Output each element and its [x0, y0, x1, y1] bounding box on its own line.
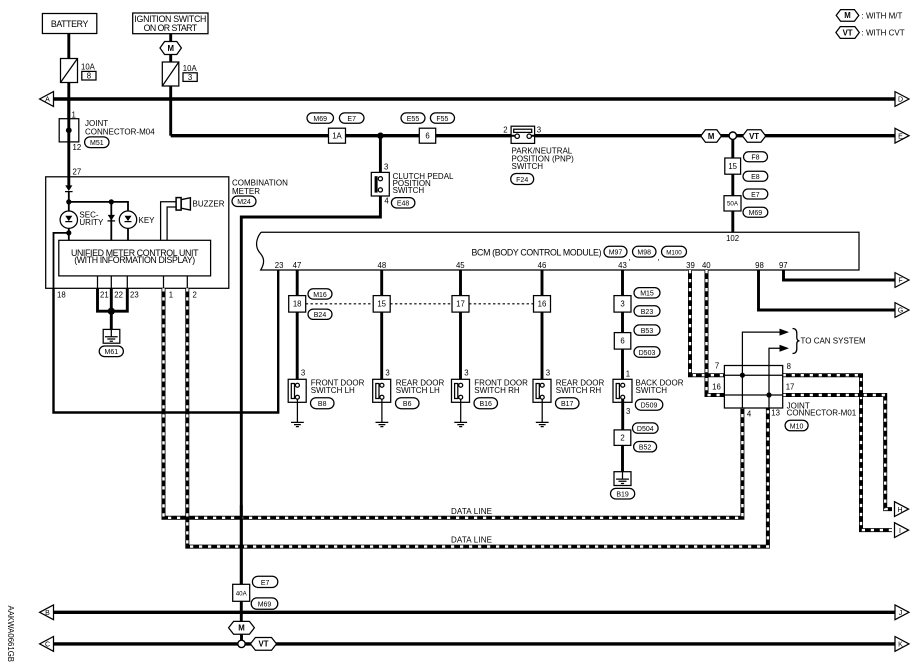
svg-text:3: 3	[546, 369, 550, 378]
ground oval B19	[611, 488, 635, 499]
svg-text:SWITCH RH: SWITCH RH	[556, 386, 602, 395]
connector oval F55	[430, 113, 454, 123]
wire back door pin3 down	[621, 399, 624, 430]
key LED	[119, 211, 136, 240]
svg-text:A: A	[45, 97, 50, 104]
label PNP switch	[512, 146, 575, 171]
connector box 6b	[614, 333, 631, 350]
svg-text:E7: E7	[751, 192, 760, 199]
wire stub pin21	[97, 276, 99, 288]
wire pins 21-23 to ground	[98, 288, 128, 329]
connector box 18	[289, 296, 306, 313]
svg-text:1: 1	[72, 110, 76, 119]
svg-text:E7: E7	[347, 116, 356, 123]
svg-text:F8: F8	[751, 155, 759, 162]
svg-text:46: 46	[538, 261, 547, 270]
rear door switch RH	[533, 379, 551, 426]
svg-text:BATTERY: BATTERY	[51, 19, 89, 29]
connector oval B6	[396, 398, 420, 409]
svg-text:E55: E55	[407, 116, 420, 123]
svg-text:F: F	[898, 278, 902, 285]
wire bcm47 to box18	[296, 270, 299, 296]
arrow D	[895, 92, 909, 107]
svg-text:SWITCH: SWITCH	[512, 162, 544, 171]
wire to security LED	[68, 202, 70, 211]
wire M hexagon to bus C	[240, 634, 243, 644]
wire node to pin18	[54, 233, 69, 288]
svg-text:B17: B17	[561, 401, 574, 408]
checkered data line 1 meter pin1 to JC-M01 pin4	[164, 288, 743, 518]
svg-text:2: 2	[620, 434, 624, 443]
svg-text:23: 23	[275, 261, 284, 270]
svg-text:3: 3	[301, 369, 305, 378]
svg-text:M: M	[238, 624, 245, 633]
wire bus C	[54, 642, 896, 645]
wire box18 to front door switch LH	[296, 312, 299, 379]
wire box16 to rear door switch RH	[541, 312, 544, 379]
label front door switch RH	[474, 379, 528, 395]
wire CAN branch 2	[769, 348, 780, 395]
svg-text:CONNECTOR-M01: CONNECTOR-M01	[787, 409, 857, 418]
svg-text:3: 3	[537, 126, 541, 135]
svg-text:B23: B23	[641, 309, 654, 316]
park/neutral position switch F24	[511, 126, 534, 143]
wire box3 to box6	[621, 312, 624, 333]
connector box 3	[614, 296, 631, 313]
wire overlay clutch feed over data lines	[240, 505, 243, 584]
svg-text:B16: B16	[479, 401, 492, 408]
wire stub pin1	[163, 276, 165, 288]
connector oval E8	[743, 171, 768, 181]
junction dot clutch branch	[377, 133, 383, 139]
connector oval B24	[308, 309, 332, 319]
svg-text:M: M	[844, 11, 851, 20]
wire JC-M01 pin4 drop	[741, 375, 743, 408]
connector oval M16	[308, 289, 332, 299]
svg-text:4: 4	[384, 196, 389, 205]
wire battery to fuse	[67, 34, 70, 59]
combination meter box	[46, 177, 229, 288]
fuse 10A 8	[61, 59, 97, 83]
wire bcm46 to box16	[541, 270, 544, 296]
svg-text:12: 12	[73, 143, 82, 152]
front door switch LH	[288, 379, 306, 426]
wire diode to node	[68, 192, 70, 202]
svg-text:50A: 50A	[727, 201, 739, 208]
wire bcm45 to box17	[459, 270, 462, 296]
svg-text:3: 3	[188, 73, 192, 82]
connector box 15	[725, 158, 741, 174]
checkered wire JC-M01 pin17 to arrow H	[783, 395, 892, 509]
diode D1	[65, 185, 73, 191]
svg-text:F24: F24	[516, 177, 528, 184]
svg-text:(WITH INFORMATION DISPLAY): (WITH INFORMATION DISPLAY)	[74, 255, 195, 265]
svg-text:G: G	[898, 308, 903, 315]
label JOINT CONNECTOR-M04	[85, 119, 155, 137]
svg-text:VT: VT	[259, 640, 269, 649]
clutch pedal position switch	[371, 172, 389, 196]
svg-text:VT: VT	[843, 28, 853, 37]
connector oval F8	[744, 152, 768, 162]
junction dot JC-M01 row1	[740, 373, 745, 378]
wire stub pin2	[186, 276, 188, 288]
wire JC-M01 pin13 drop	[768, 395, 770, 408]
connector oval D509	[635, 399, 663, 410]
svg-text:98: 98	[755, 261, 764, 270]
svg-text:7: 7	[715, 362, 719, 371]
junction dot JC-M01 row2	[766, 392, 771, 397]
svg-text:M: M	[167, 44, 174, 53]
svg-text:6: 6	[425, 132, 429, 141]
svg-text:SWITCH: SWITCH	[636, 386, 668, 395]
svg-text:M16: M16	[313, 292, 327, 299]
ground box B19	[614, 472, 631, 486]
svg-text:E: E	[898, 133, 903, 140]
arrow B	[40, 605, 54, 620]
svg-text:40A: 40A	[236, 590, 248, 597]
svg-text:B24: B24	[314, 312, 327, 319]
dashed link 18-15	[306, 303, 374, 305]
svg-text:M61: M61	[104, 349, 118, 356]
dashed link 17-16	[469, 303, 534, 305]
svg-text:21: 21	[100, 291, 109, 300]
connector oval M100	[662, 246, 687, 257]
svg-text:VT: VT	[749, 132, 759, 141]
open circle junction bus C	[238, 640, 245, 647]
connector oval E7b	[743, 189, 768, 199]
dashed link 15-17	[390, 303, 452, 305]
svg-text:,: ,	[629, 253, 631, 262]
svg-text:8: 8	[787, 362, 791, 371]
arrow A	[40, 92, 54, 107]
connector oval B53	[634, 325, 660, 335]
legend hexagon VT	[836, 27, 859, 39]
wire box15 to rear door switch LH	[380, 312, 383, 379]
svg-text:18: 18	[57, 291, 66, 300]
svg-text:17: 17	[786, 383, 795, 392]
arrow K	[895, 637, 909, 652]
wire bcm43 to box3	[621, 270, 624, 296]
svg-text:D509: D509	[641, 403, 658, 410]
ground M61 box	[103, 329, 120, 343]
svg-text:M69: M69	[313, 116, 327, 123]
connector oval B17	[556, 398, 580, 409]
wire JC-M01 row1	[724, 374, 782, 376]
svg-text:E8: E8	[751, 174, 760, 181]
hexagon M bottom	[229, 621, 255, 634]
unified meter control unit U1	[59, 240, 211, 276]
security LED	[60, 211, 77, 228]
connector oval D504	[633, 423, 659, 433]
connector oval M10	[785, 420, 808, 431]
connector oval B16	[474, 398, 498, 409]
connector oval E7	[339, 113, 364, 123]
svg-text:39: 39	[686, 261, 695, 270]
svg-text:D504: D504	[637, 426, 654, 433]
node junction	[66, 199, 71, 204]
svg-text:: WITH M/T: : WITH M/T	[862, 11, 903, 20]
checkered data line 2 meter pin2 to JC-M01 pin13	[187, 288, 768, 546]
hexagon M (with M/T)	[160, 42, 181, 55]
connector box 17	[452, 296, 469, 313]
arrow I	[895, 523, 909, 538]
svg-text:M24: M24	[237, 199, 251, 206]
svg-text:8: 8	[87, 71, 91, 80]
wire clutch to 40A feed	[241, 196, 380, 584]
ignition switch	[133, 13, 208, 34]
connector box 16	[534, 296, 551, 313]
svg-text:B8: B8	[318, 401, 327, 408]
svg-text:E48: E48	[397, 201, 410, 208]
svg-text:97: 97	[779, 261, 788, 270]
wire stub pin22	[110, 276, 112, 288]
svg-text:K: K	[898, 642, 903, 649]
hexagon VT on line E	[743, 130, 766, 143]
wire line E from ignition	[169, 86, 172, 136]
svg-text:,: ,	[658, 253, 660, 262]
wire fuse to joint connector M04	[67, 83, 70, 119]
svg-text:M98: M98	[637, 250, 651, 257]
svg-text:3: 3	[620, 300, 624, 309]
svg-text:SWITCH LH: SWITCH LH	[396, 386, 440, 395]
svg-text:C: C	[45, 642, 50, 649]
label COMBINATION METER	[232, 179, 288, 197]
svg-text:DATA LINE: DATA LINE	[451, 536, 492, 545]
label JOINT CONNECTOR-M01	[787, 401, 857, 417]
wire through joint connector M04	[67, 99, 70, 177]
svg-text:H: H	[897, 507, 902, 514]
connector oval E48	[391, 198, 415, 208]
wire CAN branch 1	[742, 332, 779, 375]
joint connector M01 box	[724, 366, 782, 409]
wire JC-M01 row2	[724, 394, 782, 396]
connector box 2	[614, 430, 631, 446]
svg-text:1: 1	[626, 369, 630, 378]
label SECURITY	[79, 211, 104, 227]
connector oval M69b	[743, 207, 768, 217]
arrow J	[895, 605, 909, 620]
svg-text:16: 16	[538, 300, 547, 309]
fuse box 40A	[233, 584, 250, 601]
wire bus A-D	[54, 97, 896, 100]
svg-text:45: 45	[456, 261, 465, 270]
joint connector M04	[59, 119, 79, 142]
svg-text:2: 2	[193, 291, 197, 300]
label front door switch LH	[311, 379, 365, 395]
wire box2 to ground B19	[621, 445, 624, 471]
svg-text:15: 15	[377, 300, 386, 309]
svg-text:23: 23	[130, 291, 139, 300]
svg-text:DATA LINE: DATA LINE	[451, 507, 492, 516]
svg-text:: WITH CVT: : WITH CVT	[862, 28, 905, 37]
svg-text:43: 43	[618, 261, 627, 270]
connector oval B8	[311, 398, 335, 409]
svg-text:18: 18	[293, 300, 302, 309]
svg-text:TO CAN SYSTEM: TO CAN SYSTEM	[801, 337, 867, 346]
svg-text:22: 22	[114, 291, 123, 300]
wire bus B	[54, 611, 896, 614]
connector oval F24	[511, 174, 534, 185]
svg-text:3: 3	[384, 163, 388, 172]
legend hexagon M	[836, 10, 859, 22]
connector oval E7c	[252, 576, 277, 587]
node junction mid	[109, 199, 114, 204]
svg-text:3: 3	[385, 369, 389, 378]
svg-text:B52: B52	[639, 445, 652, 452]
svg-text:B53: B53	[641, 328, 654, 335]
arrow G	[895, 303, 909, 318]
svg-text:10A: 10A	[81, 63, 96, 72]
svg-text:4: 4	[747, 409, 752, 418]
wire pin98 to arrow G	[759, 270, 896, 310]
wire stub pin23	[126, 276, 128, 288]
connector oval M15	[634, 288, 660, 298]
svg-text:M10: M10	[790, 423, 804, 430]
svg-text:48: 48	[378, 261, 387, 270]
arrow H	[895, 502, 909, 517]
connector oval B23	[634, 306, 660, 316]
svg-text:E7: E7	[261, 580, 270, 587]
svg-text:40: 40	[702, 261, 711, 270]
svg-text:47: 47	[293, 261, 302, 270]
svg-text:F55: F55	[436, 116, 448, 123]
checkered wire JC-M01 pin8 to arrow I	[783, 375, 892, 530]
connector oval E55	[401, 113, 425, 123]
svg-text:KEY: KEY	[139, 216, 156, 225]
svg-text:D: D	[898, 97, 903, 104]
arrow F	[895, 273, 909, 288]
wire pin97 to arrow F	[784, 270, 896, 280]
diode D2 mid branch	[108, 202, 116, 240]
arrow E	[895, 128, 909, 143]
arrow C	[40, 637, 54, 652]
wire buzzer 2	[167, 207, 176, 240]
wire 40A to bus B and M hexagon	[240, 601, 243, 621]
svg-text:102: 102	[726, 234, 739, 243]
wire pin27 into meter	[67, 177, 70, 186]
svg-text:M97: M97	[609, 250, 623, 257]
svg-text:M: M	[708, 132, 715, 141]
connector oval B52	[634, 442, 657, 452]
junction dot ground	[108, 308, 115, 315]
wire 102 feed down	[731, 137, 734, 232]
connector box 6	[419, 128, 435, 143]
checkered wire bcm39 to JC-M01 pin7	[690, 270, 724, 375]
svg-text:BCM (BODY CONTROL MODULE): BCM (BODY CONTROL MODULE)	[472, 247, 602, 257]
buzzer	[176, 198, 190, 211]
svg-text:B19: B19	[616, 492, 629, 499]
wire ignition to hexagon	[169, 34, 172, 42]
svg-text:M51: M51	[90, 140, 104, 147]
svg-text:M15: M15	[640, 291, 654, 298]
fuse box 50A	[724, 196, 741, 211]
connector oval M98	[633, 246, 660, 262]
svg-text:6: 6	[620, 337, 624, 346]
checkered wire bcm40 to JC-M01 pin16	[707, 270, 725, 395]
svg-text:3: 3	[464, 369, 468, 378]
node junction sec	[66, 230, 71, 235]
wire box17 to front door switch RH	[459, 312, 462, 379]
svg-text:ON OR START: ON OR START	[144, 23, 198, 33]
svg-text:URITY: URITY	[79, 218, 104, 227]
svg-text:SWITCH LH: SWITCH LH	[311, 386, 355, 395]
fuse 10A 3	[162, 62, 197, 86]
ground oval M61	[99, 346, 123, 357]
wire pin18 to BCM pin23	[54, 270, 279, 413]
connector oval D503	[634, 347, 660, 357]
wire box6 to back door switch	[621, 349, 624, 379]
label CLUTCH PEDAL POSITION SWITCH	[393, 172, 454, 195]
svg-text:SWITCH: SWITCH	[393, 186, 425, 195]
back door switch	[613, 379, 632, 402]
connector oval M51	[85, 137, 109, 148]
svg-text:CONNECTOR-M04: CONNECTOR-M04	[85, 128, 155, 137]
wire to clutch switch	[379, 136, 382, 173]
svg-text:M69: M69	[258, 602, 272, 609]
svg-text:D503: D503	[639, 350, 656, 357]
svg-text:B6: B6	[403, 401, 412, 408]
connector oval M97	[604, 246, 631, 262]
label rear door switch LH	[396, 379, 445, 395]
brace to CAN	[793, 329, 800, 354]
hexagon VT bottom	[250, 638, 276, 651]
wire security LED cathode	[68, 228, 70, 240]
connector box 15	[373, 296, 390, 313]
svg-text:17: 17	[456, 300, 465, 309]
open circle junction line E	[729, 132, 736, 139]
svg-text:13: 13	[771, 408, 780, 417]
svg-text:J: J	[899, 610, 903, 617]
wire bcm48 to box15	[380, 270, 383, 296]
svg-text:27: 27	[73, 167, 82, 176]
BCM body control module box	[257, 232, 859, 270]
connector oval M69	[307, 113, 334, 123]
wire hexagon to fuse	[169, 55, 172, 63]
svg-text:16: 16	[712, 383, 721, 392]
connector oval M24	[232, 196, 256, 207]
label back door switch	[636, 379, 684, 395]
connector box 1A	[329, 128, 346, 143]
svg-text:SWITCH RH: SWITCH RH	[474, 386, 520, 395]
svg-text:15: 15	[728, 162, 737, 171]
svg-text:M100: M100	[666, 249, 682, 256]
svg-text:1: 1	[169, 291, 173, 300]
svg-text:1A: 1A	[332, 132, 342, 141]
connector oval M69c	[251, 598, 278, 609]
battery	[42, 14, 96, 34]
svg-text:BUZZER: BUZZER	[193, 200, 225, 209]
svg-text:2: 2	[503, 126, 507, 135]
svg-text:AAKWA0661GB: AAKWA0661GB	[6, 606, 15, 662]
svg-text:10A: 10A	[183, 64, 198, 73]
svg-text:M69: M69	[749, 210, 763, 217]
svg-text:I: I	[899, 528, 901, 535]
wire branch horizontal	[69, 202, 128, 211]
front door switch RH	[452, 379, 470, 426]
label rear door switch RH	[556, 379, 605, 395]
rear door switch LH	[373, 379, 391, 426]
svg-text:METER: METER	[232, 187, 260, 196]
svg-text:B: B	[45, 610, 50, 617]
svg-text:3: 3	[626, 407, 630, 416]
hexagon M on line E	[701, 130, 722, 143]
wire buzzer 1	[161, 202, 177, 241]
